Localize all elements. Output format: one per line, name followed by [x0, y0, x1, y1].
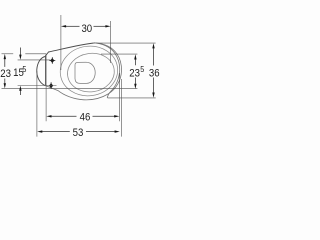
- svg-text:30: 30: [81, 23, 92, 35]
- svg-text:53: 53: [73, 128, 84, 140]
- svg-text:36: 36: [149, 68, 160, 80]
- svg-text:5: 5: [140, 65, 145, 75]
- svg-text:46: 46: [80, 112, 91, 124]
- svg-text:5: 5: [22, 65, 27, 75]
- svg-text:23: 23: [0, 68, 11, 80]
- svg-text:23: 23: [129, 68, 140, 80]
